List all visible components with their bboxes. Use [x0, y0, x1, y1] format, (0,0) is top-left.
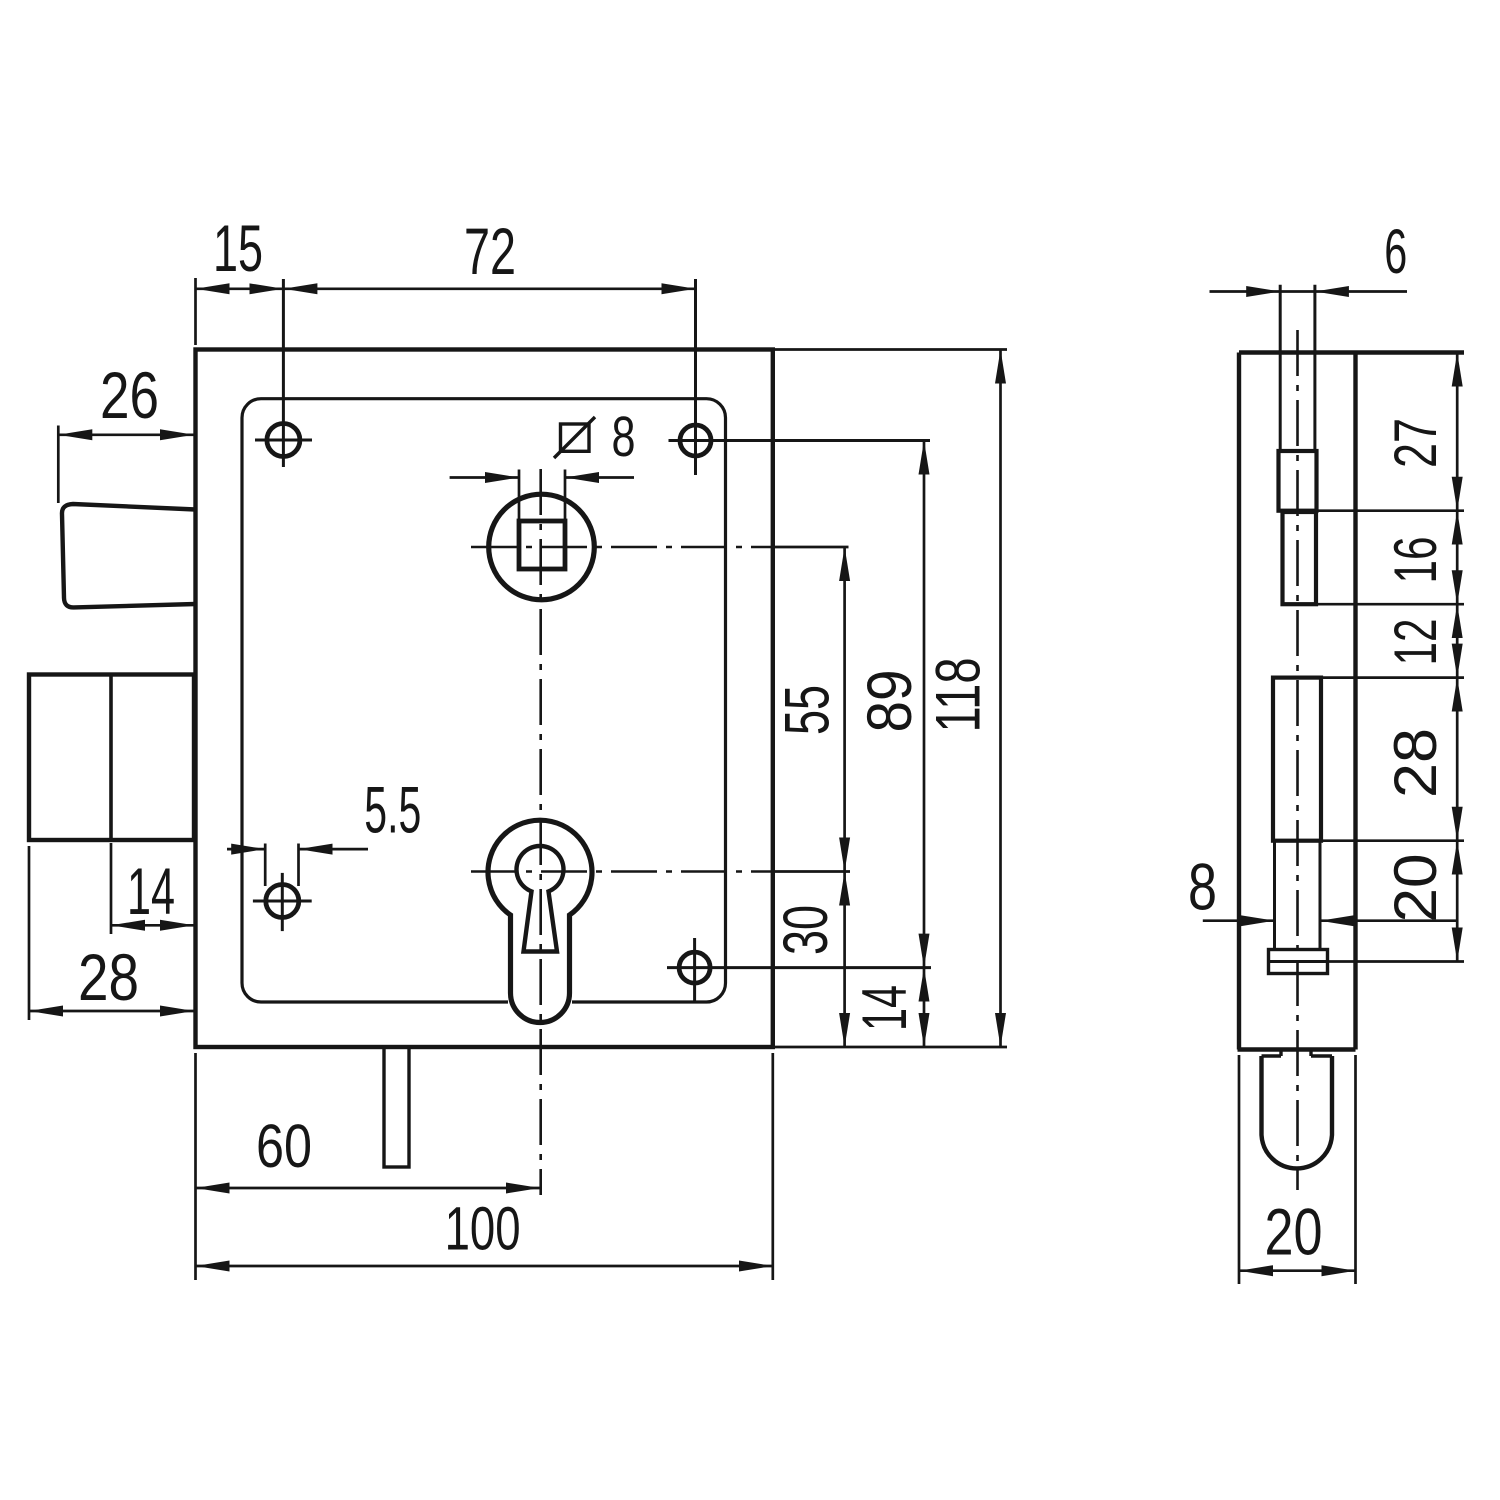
svg-text:20: 20 [1382, 854, 1449, 923]
svg-text:28: 28 [1382, 728, 1449, 798]
svg-text:5.5: 5.5 [364, 773, 421, 847]
svg-text:89: 89 [855, 670, 925, 733]
svg-text:60: 60 [256, 1112, 312, 1180]
svg-text:8: 8 [612, 405, 636, 469]
svg-text:72: 72 [464, 214, 516, 288]
svg-text:8: 8 [1188, 850, 1217, 924]
svg-text:20: 20 [1265, 1194, 1323, 1268]
svg-text:12: 12 [1382, 619, 1449, 666]
svg-text:55: 55 [772, 685, 842, 735]
svg-text:118: 118 [924, 658, 994, 733]
svg-text:100: 100 [445, 1195, 521, 1263]
svg-text:28: 28 [78, 940, 139, 1014]
svg-text:27: 27 [1382, 418, 1449, 468]
svg-text:30: 30 [771, 905, 841, 955]
svg-text:26: 26 [100, 358, 159, 432]
svg-text:15: 15 [213, 211, 263, 285]
svg-text:14: 14 [850, 985, 920, 1031]
svg-text:16: 16 [1382, 537, 1449, 584]
svg-text:6: 6 [1384, 217, 1407, 287]
svg-text:14: 14 [127, 854, 175, 928]
